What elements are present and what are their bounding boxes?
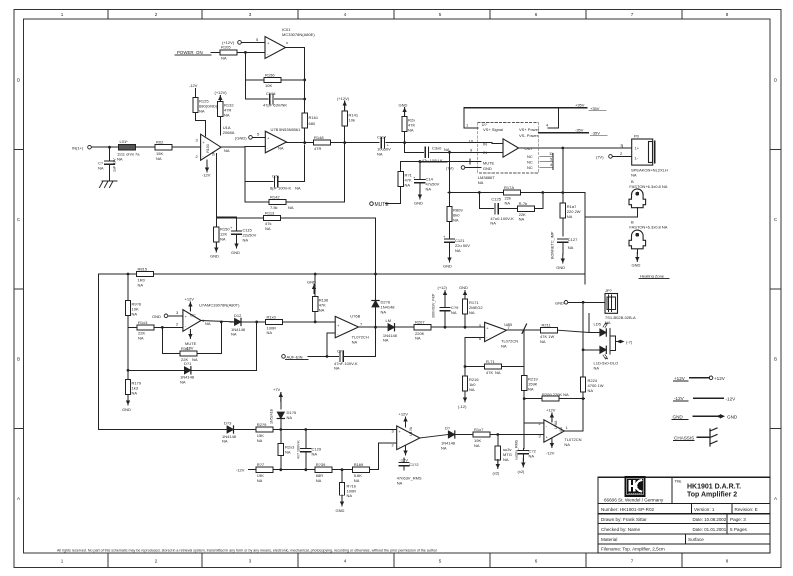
svg-text:R209 220K NA: R209 220K NA [542,392,569,397]
wire U16A minus [524,422,544,424]
svg-text:NA: NA [192,357,198,362]
junction [255,321,258,324]
svg-text:R1x0: R1x0 [267,314,277,319]
svg-text:R105: R105 [221,45,231,50]
diode D146 vertical [372,299,395,314]
svg-text:7.5k: 7.5k [270,205,278,210]
box [598,477,770,553]
svg-text:9: 9 [470,148,473,153]
svg-text:VS+ Signal: VS+ Signal [483,127,503,132]
svg-text:NA: NA [505,200,511,205]
svg-text:300n/63V_FKP: 300n/63V_FKP [432,293,436,318]
wire U1A down to R113 row [215,154,217,228]
svg-text:MUTE: MUTE [483,160,495,165]
svg-text:(GND): (GND) [235,135,247,140]
resistor R140 100R [266,314,336,335]
resistor R207 220K [414,320,485,341]
svg-text:L?8A: L?8A [554,420,558,429]
capacitor C14 [413,160,440,206]
svg-text:U1?A: U1?A [409,426,413,436]
svg-text:NA: NA [312,452,318,457]
svg-text:R156: R156 [265,72,275,77]
svg-text:7: 7 [631,559,634,564]
pin NC 4 [527,162,553,170]
junction [314,273,317,276]
pin OUT wire [519,143,632,152]
svg-text:C127: C127 [568,237,578,242]
wire U8B out [507,329,541,331]
resistor R211 47K 1W [540,323,589,344]
junction [561,191,564,194]
svg-text:U7A: U7A [199,303,207,308]
svg-text:GND: GND [556,265,565,270]
wire [598,543,770,545]
svg-text:R207: R207 [415,320,425,325]
connector Faston B2 [629,220,668,249]
svg-text:D: D [17,78,21,83]
svg-text:su3Vx_RMS: su3Vx_RMS [515,439,519,460]
svg-text:C3x0: C3x0 [432,146,442,151]
resistor R939 68R [315,462,353,483]
power +12V U15A [399,412,409,428]
diode D12 [230,313,266,337]
svg-text:-35V: -35V [575,128,584,133]
wire faston B1 to zobel [585,208,637,217]
junction [326,355,329,358]
mark [635,233,639,237]
svg-text:FASTON+6.3x0.8 NA: FASTON+6.3x0.8 NA [629,224,667,229]
svg-text:-12V: -12V [674,396,685,401]
node GND3 terminal relay [555,300,605,305]
resistor R141 10k pullup [337,96,359,143]
label LM3886T [478,175,495,185]
ground -12 under R216 [458,393,467,409]
op-amp U16B [335,316,358,337]
svg-text:NA: NA [397,480,403,485]
node GND terminal U7A [152,310,183,319]
junction [108,146,111,149]
wire U15A out [420,435,449,439]
junction [444,326,447,329]
node AUF-EIN [282,354,327,359]
svg-text:GND: GND [231,250,240,255]
resistor R187 220 2W [560,193,581,237]
node GND arrow mid [307,280,316,294]
svg-text:3: 3 [249,559,252,564]
mark [635,192,639,196]
capacitor C82 to gnd [515,439,537,474]
svg-text:Filename: Top. Amplifier, 2,5c: Filename: Top. Amplifier, 2,5cm [601,547,665,552]
svg-text:NA: NA [288,205,294,210]
svg-text:C1?2: C1?2 [409,462,419,467]
svg-text:(7V): (7V) [596,154,604,159]
wire feedback right vertical [303,145,305,182]
label SPEAKON [631,168,668,178]
diode D71 row [128,361,257,384]
svg-text:+12V: +12V [399,412,409,417]
capacitor C125 zobel [479,193,517,226]
svg-text:MC33078N(A80E): MC33078N(A80E) [282,32,315,37]
frame column ticks top [108,10,682,20]
svg-text:NA: NA [287,415,293,420]
node -7V out of LED [616,340,633,345]
svg-text:NA: NA [138,282,144,287]
legend CHASSIS net stub [674,428,718,446]
label IC01 [282,27,315,37]
svg-text:8pF 100V-K: 8pF 100V-K [270,186,291,191]
legend -12V net stub [674,396,737,402]
svg-text:-35V: -35V [592,131,601,136]
power -12V U1A top-left resistor R125 [189,83,218,136]
svg-text:NA: NA [231,332,237,337]
svg-text:1: 1 [466,122,469,127]
svg-text:Revision: E: Revision: E [735,507,758,512]
svg-text:1+: 1+ [635,146,640,151]
resistor R91b MTG to gnd [493,435,512,476]
wire [697,436,710,438]
svg-text:NA: NA [222,439,228,444]
wire [690,377,709,379]
wire [172,146,201,148]
pin IN+ [469,139,504,147]
svg-text:NA: NA [319,308,325,313]
wire input [91,146,118,148]
op-amp U7B [265,131,286,153]
op-amp power triangle [503,139,519,157]
HK logo [625,477,645,497]
resistor R91b 100R to gnd [336,470,357,513]
pin VS+ Power [519,122,559,132]
svg-text:+7V: +7V [273,387,281,392]
wire VS+ rail top [464,108,559,128]
wire [629,189,646,208]
wire MUTE net vertical [375,218,377,327]
box [629,480,631,491]
ground under C121 [443,253,452,269]
wire [237,51,265,53]
label Heating Zone [639,274,669,279]
svg-text:(+12V): (+12V) [337,96,350,101]
junction [304,428,307,431]
svg-text:4: 4 [344,559,347,564]
svg-text:NA: NA [453,218,459,223]
svg-text:NA: NA [631,173,637,178]
svg-text:LM: LM [386,318,392,323]
svg-text:B: B [17,357,20,362]
resistor R105 [211,45,237,61]
junction [448,151,451,154]
capacitor C79 to +12V [432,285,460,327]
junction [161,326,164,329]
wire [491,142,493,145]
wire out IC01 [286,48,305,116]
svg-text:1: 1 [61,559,64,564]
svg-text:NA: NA [478,180,484,185]
svg-text:C117: C117 [377,135,387,140]
svg-text:NA: NA [352,340,358,345]
svg-text:8: 8 [726,559,729,564]
diode D97 [441,426,473,451]
svg-text:NA: NA [408,128,414,133]
svg-text:NA: NA [503,457,509,462]
wire down from U1A out [244,147,246,202]
svg-text:BONNETC_IMP: BONNETC_IMP [551,231,555,259]
pin NC 5 [527,156,553,164]
wire [731,504,733,514]
wire [726,514,728,534]
svg-text:1: 1 [61,12,64,17]
resistor R169 5.6K [353,462,379,483]
wire feedback vertical [244,52,246,99]
node MUTE label [370,202,390,208]
svg-text:AUF-EIN: AUF-EIN [287,354,303,359]
svg-text:C?1: C?1 [337,348,345,353]
svg-text:GND: GND [555,300,564,305]
label U8B [501,322,518,349]
junction [303,141,306,144]
op-amp U8B [479,322,507,341]
power -12V U7A [185,330,197,351]
svg-text:C104: C104 [266,91,276,96]
svg-text:GND: GND [673,415,684,420]
svg-text:GND: GND [152,314,161,319]
svg-text:R02: R02 [156,140,164,145]
capacitor C104 [245,91,304,108]
svg-text:NA: NA [528,387,534,392]
svg-text:(-7): (-7) [626,340,633,345]
svg-text:(7V): (7V) [446,165,454,170]
svg-text:JP?: JP? [605,288,613,293]
svg-text:U?6B: U?6B [350,314,360,319]
svg-text:-12V: -12V [202,173,211,178]
svg-text:GND: GND [459,285,468,290]
svg-text:L01*: L01* [120,139,129,144]
resistor R209 220K [523,392,585,401]
svg-text:CC: CC [190,313,196,318]
frame row ticks left and right [14,150,781,429]
power +12V U7A [185,297,195,312]
svg-text:2: 2 [196,154,199,159]
wire U7A out [201,321,235,322]
svg-text:NA: NA [594,366,600,371]
svg-text:47u 100V-K: 47u 100V-K [422,158,443,163]
svg-text:R148: R148 [314,135,324,140]
wire U7B out [287,142,314,144]
svg-text:Drawn by: Frank Sittar: Drawn by: Frank Sittar [601,517,647,522]
svg-text:5: 5 [256,37,259,42]
junction [279,468,282,471]
svg-text:GND: GND [414,201,423,206]
svg-text:D?1: D?1 [184,361,192,366]
svg-text:D: D [774,78,778,83]
svg-text:7: 7 [631,12,634,17]
svg-text:NA: NA [519,217,525,222]
resistor R161 680 [302,113,319,143]
power +12V U16A [546,408,556,423]
wire U16B out [359,326,389,328]
resistor R147 19K [473,427,544,448]
svg-text:10K: 10K [265,83,272,88]
label relay connector [605,315,636,325]
diode D17 [383,318,414,343]
svg-text:NA: NA [221,56,227,61]
svg-text:NA: NA [415,336,421,341]
svg-text:C: C [17,217,21,222]
resistor R171 2MEG2 [459,285,483,327]
junction [464,365,467,368]
wire relay net down to R224 [582,302,584,377]
svg-text:NA: NA [605,320,611,325]
svg-text:NA: NA [469,310,475,315]
svg-text:C: C [774,217,778,222]
svg-text:R?39: R?39 [316,462,326,467]
op-amp IC01 [265,37,288,59]
svg-text:D?3: D?3 [224,421,232,426]
svg-text:3: 3 [176,310,179,315]
power -12V U16A [546,439,555,456]
svg-text:Page: 3: Page: 3 [730,517,746,522]
svg-text:MC33078N(A80T): MC33078N(A80T) [207,303,240,308]
resistor R243 [278,430,295,470]
wire OUT down to zobel [562,148,564,191]
svg-text:5N53N5561: 5N53N5561 [279,127,301,132]
svg-text:NA: NA [98,166,104,171]
svg-text:8: 8 [726,12,729,17]
junction [127,369,130,372]
ground under C127 [556,254,565,270]
capacitor C3x0 feedback [405,146,492,158]
svg-text:Heating Zone: Heating Zone [640,274,665,279]
diode D93 [222,421,256,444]
LED package bar [610,329,616,354]
svg-text:NA: NA [220,237,226,242]
wire IN+ from C117 [405,142,492,144]
svg-text:D12: D12 [234,313,242,318]
pin MUTE [401,159,495,166]
frame column ticks bottom [108,553,682,568]
junction [496,433,499,436]
svg-text:NA: NA [257,478,263,483]
svg-text:NA: NA [540,339,546,344]
wire up to U15A minus [379,443,397,470]
svg-text:+35V: +35V [575,103,585,108]
svg-text:NA: NA [180,379,186,384]
wire long rail y274 [98,273,585,275]
svg-text:NA: NA [224,148,230,153]
svg-text:(x2): (x2) [518,469,526,474]
svg-text:x: x [286,40,288,45]
ground under R179 [122,396,131,412]
wire U7B minus stub [245,146,265,148]
svg-text:4: 4 [344,12,347,17]
LED LD5 lower [583,346,607,359]
svg-text:NA: NA [199,109,205,114]
svg-text:Number: HK1901-SP-R02: Number: HK1901-SP-R02 [601,507,655,512]
wire [694,397,723,399]
svg-text:R2?9: R2?9 [257,422,267,427]
power -12V below U1A [202,160,211,177]
svg-text:NA: NA [567,214,573,219]
wire [629,492,642,494]
svg-text:5: 5 [439,559,442,564]
junction [127,273,130,276]
svg-text:1: 1 [566,425,569,430]
wire [685,534,687,544]
wire [691,504,693,514]
op-amp U1A [196,134,222,160]
label U7B [271,127,302,150]
junction [374,273,377,276]
svg-text:NA: NA [405,183,411,188]
svg-text:66606 St. Wendel / Germany: 66606 St. Wendel / Germany [604,497,664,502]
svg-text:(+12V): (+12V) [215,90,228,95]
svg-text:P0: P0 [634,134,640,139]
junction slash [522,324,527,334]
capacitor C81 feedback U16B [327,327,376,370]
wire U8B minus input [465,337,485,339]
svg-text:1K: 1K [212,151,216,156]
wire [331,142,380,144]
connector P0 SPEAKON [632,134,655,166]
junction [464,326,467,329]
node +35V [559,103,607,111]
svg-text:2068A: 2068A [223,130,235,135]
label U7A [199,303,240,327]
svg-text:1uF 63V: 1uF 63V [113,158,117,172]
svg-text:NA: NA [529,454,535,459]
wire down from diode junction [256,322,258,370]
svg-text:2: 2 [155,12,158,17]
wire [598,533,770,535]
svg-text:R211: R211 [542,323,552,328]
resistor R815 1R0 [137,266,154,287]
power amp U10 dashed box [478,123,539,174]
svg-text:MUTE: MUTE [375,202,390,208]
svg-text:R1x7: R1x7 [474,427,484,432]
power +12V U1A resistor R132 [215,90,235,135]
wire [671,477,673,503]
resistor R113 47k [216,210,375,231]
svg-text:4: 4 [550,162,553,167]
svg-text:(x2): (x2) [493,471,501,476]
op-amp U16A [539,420,565,442]
wire [694,415,720,417]
svg-text:1N5241B: 1N5241B [270,408,274,424]
svg-text:NC: NC [527,160,533,165]
ground under Faston B2 [632,249,641,268]
resistor R81 47K mute [386,172,413,204]
svg-text:CHASSIS: CHASSIS [674,436,694,441]
svg-text:NA: NA [495,370,501,375]
svg-text:NA: NA [295,186,301,191]
legend +12V net stub [674,376,726,381]
svg-text:D?: D? [445,426,451,431]
svg-text:NA: NA [469,387,475,392]
svg-text:NA: NA [132,312,138,317]
op-amp U15A [392,426,420,450]
svg-text:NA: NA [334,366,340,371]
svg-text:5 Pages: 5 Pages [730,527,748,532]
svg-text:+: + [443,234,446,239]
svg-text:GND: GND [399,103,408,108]
junction [718,415,721,418]
svg-text:Date: 10.08.2002: Date: 10.08.2002 [693,517,727,522]
node IN1+ input terminal [72,145,91,150]
svg-text:LD5: LD5 [594,322,602,327]
svg-text:5: 5 [439,12,442,17]
node (7V) to speaker pin2 [596,151,632,159]
svg-text:-12V: -12V [546,451,555,456]
